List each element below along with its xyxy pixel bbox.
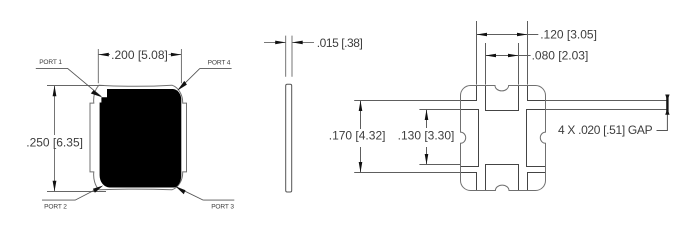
svg-text:PORT 1: PORT 1	[39, 59, 62, 66]
svg-text:.170 [4.32]: .170 [4.32]	[329, 129, 386, 143]
svg-text:.130 [3.30]: .130 [3.30]	[398, 129, 455, 143]
svg-text:PORT 2: PORT 2	[44, 203, 67, 210]
svg-text:.015 [.38]: .015 [.38]	[317, 36, 363, 50]
svg-text:4 X .020 [.51] GAP: 4 X .020 [.51] GAP	[558, 123, 653, 137]
svg-text:.080 [2.03]: .080 [2.03]	[532, 49, 589, 63]
svg-text:PORT 4: PORT 4	[208, 59, 231, 66]
svg-text:.200 [5.08]: .200 [5.08]	[111, 48, 168, 62]
svg-text:.120 [3.05]: .120 [3.05]	[540, 28, 597, 42]
svg-text:PORT 3: PORT 3	[211, 203, 234, 210]
svg-text:.250 [6.35]: .250 [6.35]	[26, 136, 83, 150]
